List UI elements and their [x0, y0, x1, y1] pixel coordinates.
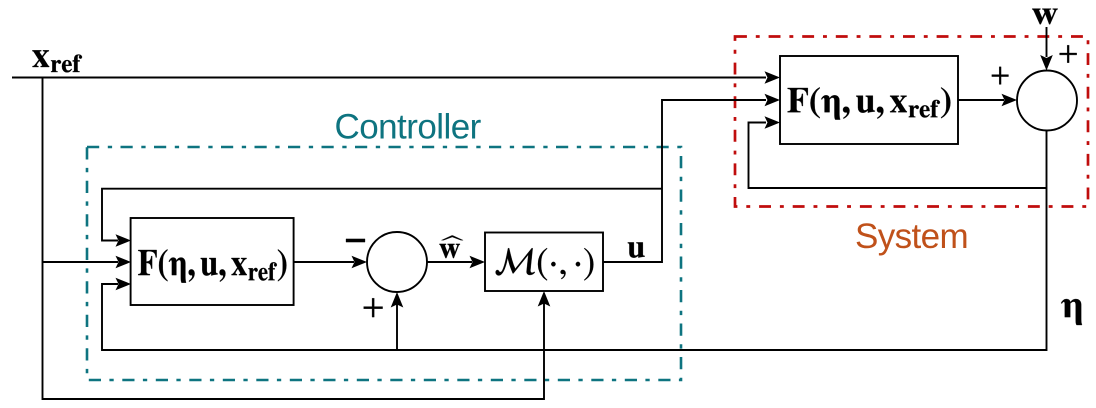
svg-text:Controller: Controller — [335, 107, 482, 146]
svg-text:System: System — [855, 217, 968, 256]
